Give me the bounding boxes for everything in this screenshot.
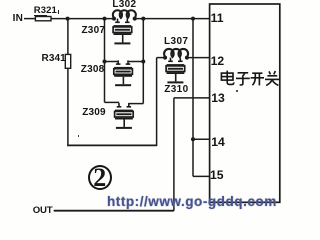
inductor L307 bbox=[164, 49, 188, 57]
wire rung2 right bbox=[128, 61, 144, 63]
resistor R321 label bbox=[34, 5, 57, 16]
wire pin13 bbox=[174, 97, 210, 99]
trap Z309 label bbox=[82, 107, 106, 118]
wire line C top wire to pin15 bbox=[192, 19, 194, 177]
wire R341 top bbox=[67, 19, 69, 55]
wire ladder right rail bbox=[142, 19, 144, 104]
ceramic trap Z307 bbox=[113, 19, 132, 45]
ceramic trap Z308 bbox=[114, 60, 133, 86]
scan noise marks bbox=[0, 219, 287, 221]
pin 15 bbox=[210, 168, 224, 182]
wire ladder left rail bbox=[104, 19, 106, 103]
wire right riser to L307 bbox=[156, 58, 158, 147]
junction L302 left terminal bbox=[112, 17, 116, 21]
resistor R341 bbox=[65, 54, 70, 68]
wire pin12 line bbox=[187, 57, 210, 59]
node IN label bbox=[13, 13, 24, 24]
IC box 电子开关 bbox=[210, 4, 280, 202]
junction left rail / top wire bbox=[103, 17, 107, 21]
char 开 bbox=[251, 73, 264, 85]
watermark bbox=[107, 195, 277, 209]
junction L302 right terminal bbox=[133, 17, 137, 21]
junction pin 14 node bbox=[191, 137, 195, 141]
resistor R341 label bbox=[42, 53, 66, 64]
trap Z308 label bbox=[81, 64, 105, 75]
pin 12 bbox=[211, 54, 225, 68]
wire Z309 left arm bbox=[105, 101, 120, 103]
wire R341 bottom bbox=[67, 68, 69, 146]
inductor L307 label bbox=[164, 36, 188, 47]
pin 13 bbox=[211, 91, 225, 105]
junction L307 left terminal bbox=[163, 56, 167, 60]
ceramic trap Z310 bbox=[166, 58, 185, 84]
wire rung2 left bbox=[105, 61, 119, 63]
node OUT label bbox=[33, 205, 53, 216]
trap Z310 label bbox=[164, 84, 188, 95]
figure number 2 circled bbox=[88, 165, 112, 190]
junction right rail / top wire bbox=[141, 17, 145, 21]
junction L307 right terminal bbox=[185, 56, 189, 60]
wire IN to R321 bbox=[24, 18, 36, 20]
wire line B pin13 to OUT bbox=[173, 98, 175, 211]
wire Z309 right arm bbox=[129, 103, 144, 105]
wire R321 to L302 left bbox=[51, 18, 114, 20]
inductor L302 label bbox=[112, 0, 136, 10]
inductor L302 bbox=[113, 10, 136, 18]
wire pin14 bbox=[193, 138, 210, 140]
char 子 bbox=[236, 73, 250, 85]
wire OUT line bbox=[54, 210, 174, 212]
wire L302 right to box pin 11 bbox=[135, 18, 210, 20]
wire pin15 bbox=[193, 175, 210, 177]
char 电 bbox=[221, 71, 233, 85]
wire bottom return line bbox=[67, 144, 156, 146]
pin 11 bbox=[211, 11, 224, 25]
junction left rail / rung 2 bbox=[103, 60, 107, 64]
junction right rail / rung 2 bbox=[141, 60, 145, 64]
pin 14 bbox=[211, 135, 225, 149]
resistor R321 bbox=[35, 17, 51, 21]
junction top wire / pin14-15 branch bbox=[191, 17, 195, 21]
trap Z307 label bbox=[82, 25, 106, 36]
ceramic trap Z309 bbox=[115, 103, 134, 129]
junction R321/R341 node bbox=[66, 17, 70, 21]
char 关 bbox=[265, 71, 279, 86]
